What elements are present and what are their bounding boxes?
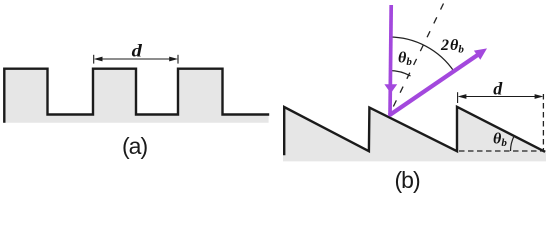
- svg-text:d: d: [493, 79, 503, 99]
- svg-text:(a): (a): [122, 133, 147, 159]
- diffracted beam (b): [389, 54, 479, 115]
- blaze angle arc theta_b (b): [511, 136, 515, 151]
- dashed blaze-normal line (b): [389, 4, 444, 116]
- dimension line d (a): [94, 55, 178, 64]
- gray substrate with sawtooth teeth (b): [283, 107, 546, 162]
- incident beam (b): [390, 5, 391, 116]
- svg-text:(b): (b): [395, 167, 420, 193]
- gray substrate with square teeth (a): [3, 68, 269, 123]
- blazed grating profile outline (b): [284, 107, 544, 154]
- svg-text:2θb: 2θb: [440, 37, 464, 56]
- dimension line d (b): [458, 92, 544, 103]
- dashed vertical extension line (b): [542, 94, 544, 151]
- square grating profile outline (a): [4, 69, 268, 122]
- small arc theta_b between incident beam and normal (b): [389, 70, 411, 76]
- incident beam arrowhead (b): [384, 84, 397, 93]
- dashed horizontal base line (b): [459, 150, 546, 152]
- diffracted beam arrowhead (b): [474, 48, 487, 59]
- svg-text:θb: θb: [398, 49, 412, 68]
- large arc 2theta_b between incident and diffracted beams (b): [389, 37, 454, 72]
- svg-text:d: d: [132, 41, 143, 61]
